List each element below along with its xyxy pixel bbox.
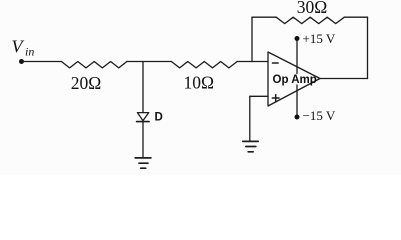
wire top left to R30 — [252, 16, 276, 18]
svg-text:30Ω: 30Ω — [297, 0, 328, 17]
wire op-amp output — [320, 78, 368, 80]
wire diode to ground — [142, 122, 144, 158]
op-amp U1 triangle — [268, 52, 320, 106]
wire feedback right vertical — [367, 17, 369, 78]
wire non-inverting input — [250, 95, 268, 97]
ground (diode branch) — [135, 158, 151, 168]
op-amp plus pin mark — [272, 95, 279, 102]
svg-text:Op Amp: Op Amp — [273, 74, 317, 86]
ground (non-inverting input) — [243, 141, 258, 151]
resistor 20ohm zigzag — [61, 62, 127, 68]
wire diode branch anode — [142, 62, 144, 113]
node +15V dot — [295, 36, 300, 41]
svg-text:−15 V: −15 V — [303, 108, 336, 123]
resistor 10ohm zigzag — [171, 62, 237, 68]
wire power rail through op-amp — [296, 39, 298, 74]
diode D triangle — [137, 113, 148, 121]
wire Vin to R 20ohm — [22, 61, 62, 63]
node Vin terminal dot — [19, 59, 24, 64]
op-amp minus pin mark — [273, 62, 279, 64]
resistor 30ohm zigzag — [276, 17, 344, 23]
diode D cathode bar — [137, 121, 150, 123]
svg-text:10Ω: 10Ω — [184, 73, 215, 93]
svg-text:D: D — [155, 111, 163, 123]
wire R20 to R10 (through diode junction) — [127, 61, 171, 63]
svg-text:+15 V: +15 V — [303, 31, 336, 46]
node -15V dot — [295, 115, 300, 120]
wire R10 to op-amp inverting input — [237, 61, 268, 63]
wire feedback left vertical — [251, 17, 253, 61]
wire R30 to top right corner — [344, 16, 367, 18]
svg-text:in: in — [25, 45, 34, 59]
svg-text:20Ω: 20Ω — [71, 73, 102, 93]
wire to ground (non-inverting) — [249, 96, 251, 141]
